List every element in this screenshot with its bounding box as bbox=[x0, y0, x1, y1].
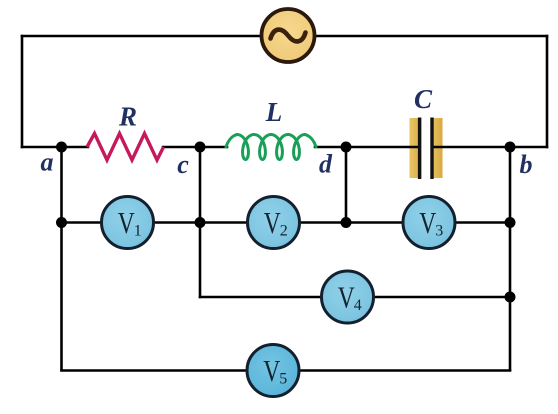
wire: row2 c to V4 bbox=[200, 296, 321, 299]
node c bbox=[195, 142, 206, 153]
wire: row2 V4 to b bbox=[375, 296, 511, 299]
voltmeter V1 bbox=[102, 197, 154, 249]
svg-text:V: V bbox=[263, 353, 280, 388]
junction row2 at b bbox=[505, 292, 516, 303]
svg-text:a: a bbox=[41, 148, 54, 177]
junction row1 at d bbox=[341, 217, 352, 228]
svg-text:2: 2 bbox=[280, 223, 288, 240]
wire: main horizontal R to L bbox=[163, 146, 227, 149]
svg-text:c: c bbox=[177, 150, 189, 179]
wire: vertical from node b bbox=[509, 147, 512, 370]
inductor L bbox=[226, 135, 316, 160]
node b bbox=[505, 142, 516, 153]
svg-text:d: d bbox=[319, 150, 333, 179]
svg-text:V: V bbox=[338, 280, 355, 315]
svg-text:V: V bbox=[118, 205, 135, 240]
wire: vertical from node c bbox=[199, 147, 202, 297]
voltmeter V2 bbox=[248, 197, 300, 249]
svg-text:L: L bbox=[265, 97, 283, 127]
node a bbox=[56, 142, 67, 153]
wire: row1 a to V1 bbox=[62, 221, 101, 224]
wire: top horizontal left of source bbox=[22, 35, 263, 38]
wire: main horizontal C to right corner bbox=[433, 146, 547, 149]
wire: top-right vertical bbox=[546, 36, 549, 147]
svg-text:V: V bbox=[419, 205, 436, 240]
wire: row3 V5 to b bbox=[300, 369, 510, 372]
wire: top horizontal right of source bbox=[313, 35, 547, 38]
wire: row1 V2 to V3 bbox=[301, 221, 403, 224]
capacitor C plates bbox=[418, 118, 434, 180]
voltmeter V5 bbox=[247, 345, 299, 397]
svg-text:3: 3 bbox=[435, 223, 443, 240]
resistor R bbox=[87, 134, 164, 161]
junction row1 at b bbox=[505, 217, 516, 228]
wire: row1 V1 to V2 bbox=[155, 221, 247, 224]
svg-text:C: C bbox=[414, 84, 433, 114]
svg-text:1: 1 bbox=[134, 223, 142, 240]
wire: main horizontal a to R bbox=[22, 146, 88, 149]
junction row1 at a bbox=[56, 217, 67, 228]
wire: main horizontal L to C bbox=[315, 146, 418, 149]
svg-text:5: 5 bbox=[279, 371, 287, 388]
AC source bbox=[262, 9, 315, 62]
svg-text:V: V bbox=[264, 205, 281, 240]
wire: row1 V3 to b bbox=[456, 221, 510, 224]
voltmeter V4 bbox=[322, 271, 374, 323]
junction row1 at c bbox=[195, 217, 206, 228]
wire: vertical from node d bbox=[345, 147, 348, 222]
svg-text:4: 4 bbox=[354, 297, 362, 314]
wire: vertical from node a bbox=[60, 147, 63, 370]
voltmeter V3 bbox=[403, 197, 455, 249]
svg-text:b: b bbox=[520, 150, 533, 179]
svg-text:R: R bbox=[118, 102, 137, 132]
wire: top-left vertical bbox=[21, 36, 24, 147]
capacitor C gold plates highlight bbox=[410, 118, 422, 178]
node d bbox=[341, 142, 352, 153]
wire: row3 a to V5 bbox=[62, 369, 247, 372]
